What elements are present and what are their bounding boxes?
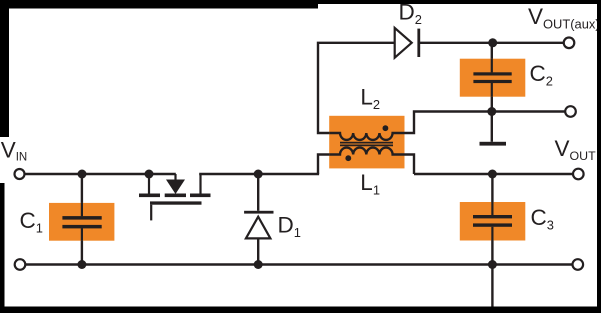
node: D1 top junction [254,170,263,179]
node: C3 top junction [488,170,497,179]
source pad [190,194,211,198]
terminal bottom left [15,259,26,270]
wire: bottom rail [26,263,572,265]
wire: C1 bottom lead [81,228,83,264]
terminal VOUT [573,169,584,180]
wire: D1 top lead [257,174,259,211]
ground (aux, below C2) [480,142,507,146]
wire: input rail right segment (after MOSFET) [199,173,319,175]
node: C1 bottom junction [77,260,86,269]
wire: C3 top lead [491,174,493,215]
gate lead [150,205,152,221]
wire: main ground lead [491,265,493,310]
wire: D1 bottom lead [257,238,259,264]
phase dot L2 [383,125,389,131]
wire: L2 right riser to aux return rail [393,112,565,134]
terminal bottom right [573,259,584,270]
capacitor C2 [460,59,526,97]
wire: input rail left segment [25,173,176,175]
wire: C2 top lead [491,43,493,73]
diode D1 [244,211,273,239]
source lead [199,174,201,194]
terminal VOUT(aux) [564,38,575,49]
node: C2 top junction [488,38,497,47]
wire: C3 bottom lead [491,227,493,265]
node: C2 bottom junction [487,107,496,116]
winding L2 (top) [329,133,404,140]
body arrow [166,180,185,195]
wire: jog up to L1 left [318,155,340,175]
wire: L2 left riser to top rail [318,43,395,133]
wire: aux ground lead [491,112,493,142]
capacitor C3 [460,202,526,241]
wire: L1 right to VOUT rail [393,155,414,175]
wire: VOUT rail [414,173,572,175]
phase dot L1 [345,155,351,161]
coupled inductor L1/L2 [329,116,404,169]
terminal VIN [15,169,25,179]
transistor Q1 (MOSFET) [139,174,211,220]
body pad [165,194,186,198]
node: C1 top junction [78,170,87,179]
node: D1 bottom junction [254,260,263,269]
capacitor C1 [49,203,114,241]
body arrow tick [174,174,176,180]
ground (main, bottom) [479,309,506,312]
diode D2 [395,28,419,58]
node: MOSFET drain junction [145,170,154,179]
wire: C1 top lead [81,174,83,216]
terminal aux return [565,106,576,117]
wire: D2 cathode to VOUT(aux) terminal [419,42,564,44]
gate bar [150,201,202,204]
core lines [340,142,393,144]
wire: C2 bottom lead [491,83,493,112]
winding L1 (bottom) [329,148,404,155]
drain pad [139,194,160,198]
node: C3 bottom junction [488,260,497,269]
drain lead [148,174,150,194]
